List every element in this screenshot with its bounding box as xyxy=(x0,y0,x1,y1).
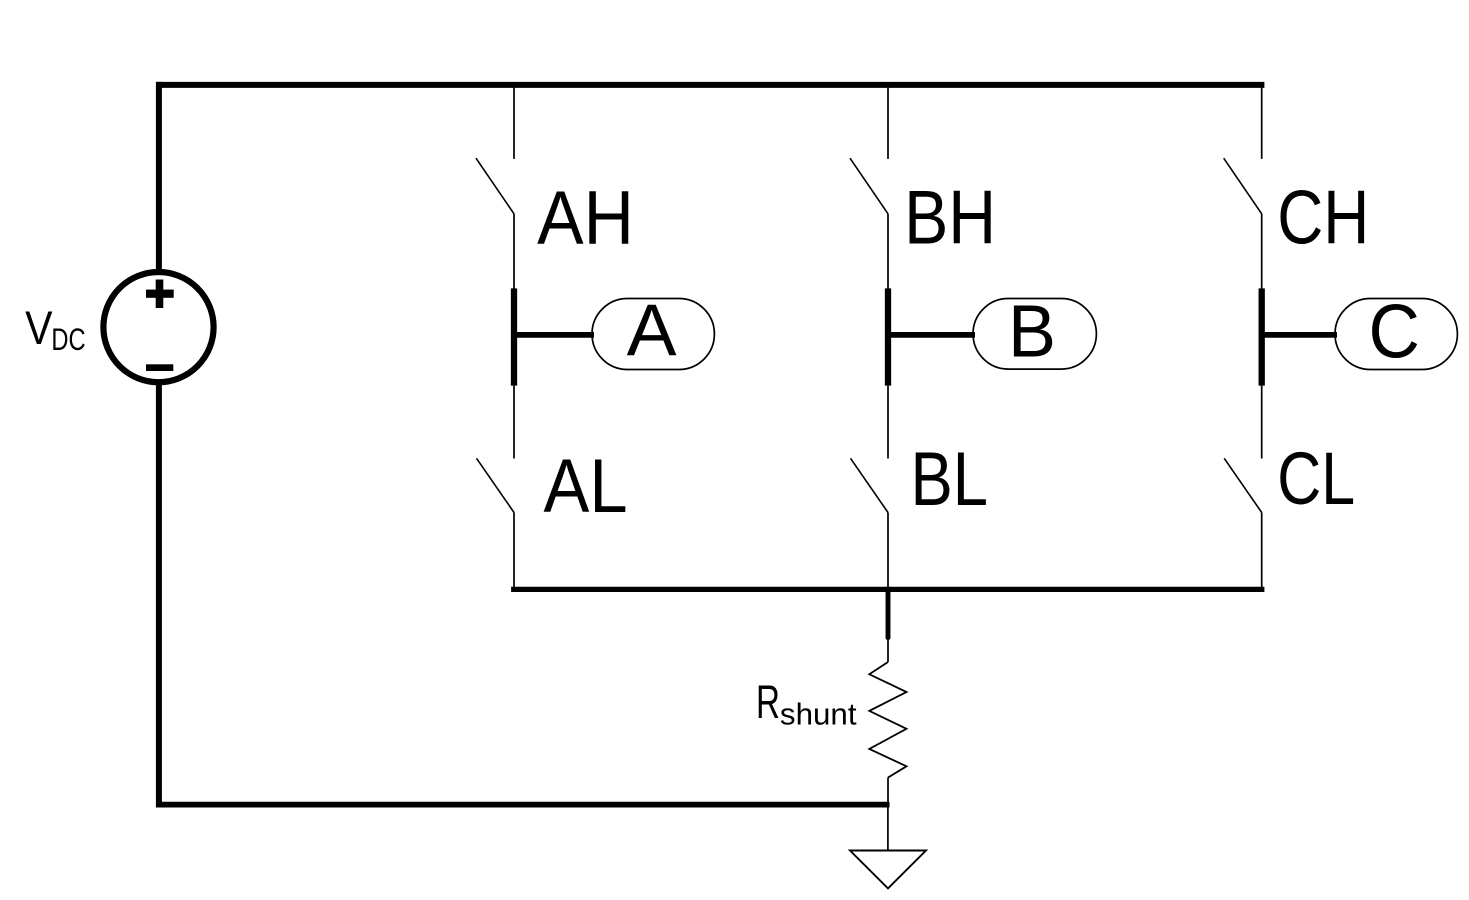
wire bottom return xyxy=(156,802,890,808)
minus sign xyxy=(146,364,173,371)
wire AL to lower bus xyxy=(513,513,515,590)
wire top DC bus xyxy=(156,82,1264,88)
wire AH to node A bar xyxy=(513,214,515,290)
wire node C to CL xyxy=(1261,386,1263,459)
svg-text:shunt: shunt xyxy=(780,699,857,732)
ground symbol xyxy=(850,851,926,889)
wire node A to AL xyxy=(513,386,515,459)
switch BL blade xyxy=(851,458,889,512)
wire node C to terminal xyxy=(1262,332,1337,338)
svg-text:AL: AL xyxy=(543,444,627,529)
switch BH blade xyxy=(850,158,888,214)
wire BL to lower bus xyxy=(887,513,889,590)
node B bar xyxy=(885,288,891,385)
voltage source V_DC circle xyxy=(103,272,213,382)
svg-text:C: C xyxy=(1369,289,1420,374)
svg-text:B: B xyxy=(1008,289,1056,372)
terminal oval A xyxy=(592,299,714,370)
wire CL to lower bus xyxy=(1261,513,1263,590)
svg-text:CL: CL xyxy=(1277,437,1355,520)
terminal oval C xyxy=(1335,299,1457,370)
svg-text:AH: AH xyxy=(537,176,634,261)
wire phase B top leg xyxy=(887,86,889,159)
plus sign xyxy=(146,290,174,298)
svg-text:A: A xyxy=(627,289,677,372)
svg-text:V: V xyxy=(25,302,53,355)
wire node B to terminal xyxy=(888,332,975,338)
wire phase A top leg xyxy=(513,86,515,159)
wire lower bridge bus xyxy=(511,587,1264,592)
wire shunt stub (thick) xyxy=(886,589,891,638)
switch CH blade xyxy=(1224,158,1262,214)
wire stub to resistor xyxy=(887,638,889,662)
node C bar xyxy=(1259,288,1265,385)
switch AH blade xyxy=(476,158,514,214)
wire left vertical (V_DC to bottom) xyxy=(156,382,162,808)
wire BH to node B bar xyxy=(887,214,889,290)
wire left vertical (top bus to V_DC) xyxy=(156,82,162,273)
svg-text:BH: BH xyxy=(904,176,996,261)
switch AL blade xyxy=(477,458,515,512)
wire phase C top leg xyxy=(1261,86,1263,159)
wire node B to BL xyxy=(887,386,889,459)
svg-text:R: R xyxy=(756,676,780,729)
resistor R_shunt zigzag xyxy=(869,662,906,778)
wire node A to terminal xyxy=(514,332,594,338)
wire resistor to bottom return xyxy=(887,778,889,807)
svg-text:DC: DC xyxy=(51,322,85,357)
terminal oval B xyxy=(973,299,1096,370)
svg-text:CH: CH xyxy=(1277,175,1369,260)
switch CL blade xyxy=(1224,458,1262,512)
wire CH to node C bar xyxy=(1261,214,1263,290)
wire ground stem xyxy=(887,804,889,850)
node A bar xyxy=(511,288,517,385)
svg-text:BL: BL xyxy=(911,437,988,522)
